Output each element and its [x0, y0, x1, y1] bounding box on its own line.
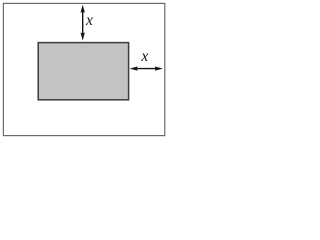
svg-text:x: x — [85, 12, 93, 29]
svg-text:x: x — [140, 48, 148, 65]
inner gray rectangle — [38, 43, 128, 100]
horizontal dimension arrow (right gap) — [130, 66, 163, 70]
outer boundary rectangle — [3, 3, 164, 135]
vertical dimension arrow (top gap) — [81, 5, 85, 41]
